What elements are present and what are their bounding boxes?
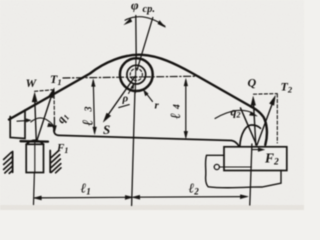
svg-text:ℓ: ℓ xyxy=(169,113,184,119)
svg-text:S: S xyxy=(103,122,110,137)
svg-text:ℓ: ℓ xyxy=(81,120,97,126)
svg-text:cр.: cр. xyxy=(143,4,156,15)
svg-text:r: r xyxy=(155,100,160,112)
svg-text:3: 3 xyxy=(84,107,95,113)
svg-text:W: W xyxy=(26,76,38,90)
svg-text:ρ: ρ xyxy=(122,93,129,105)
svg-text:Q: Q xyxy=(248,76,257,90)
svg-text:φ: φ xyxy=(131,0,139,13)
svg-text:4: 4 xyxy=(173,104,183,110)
